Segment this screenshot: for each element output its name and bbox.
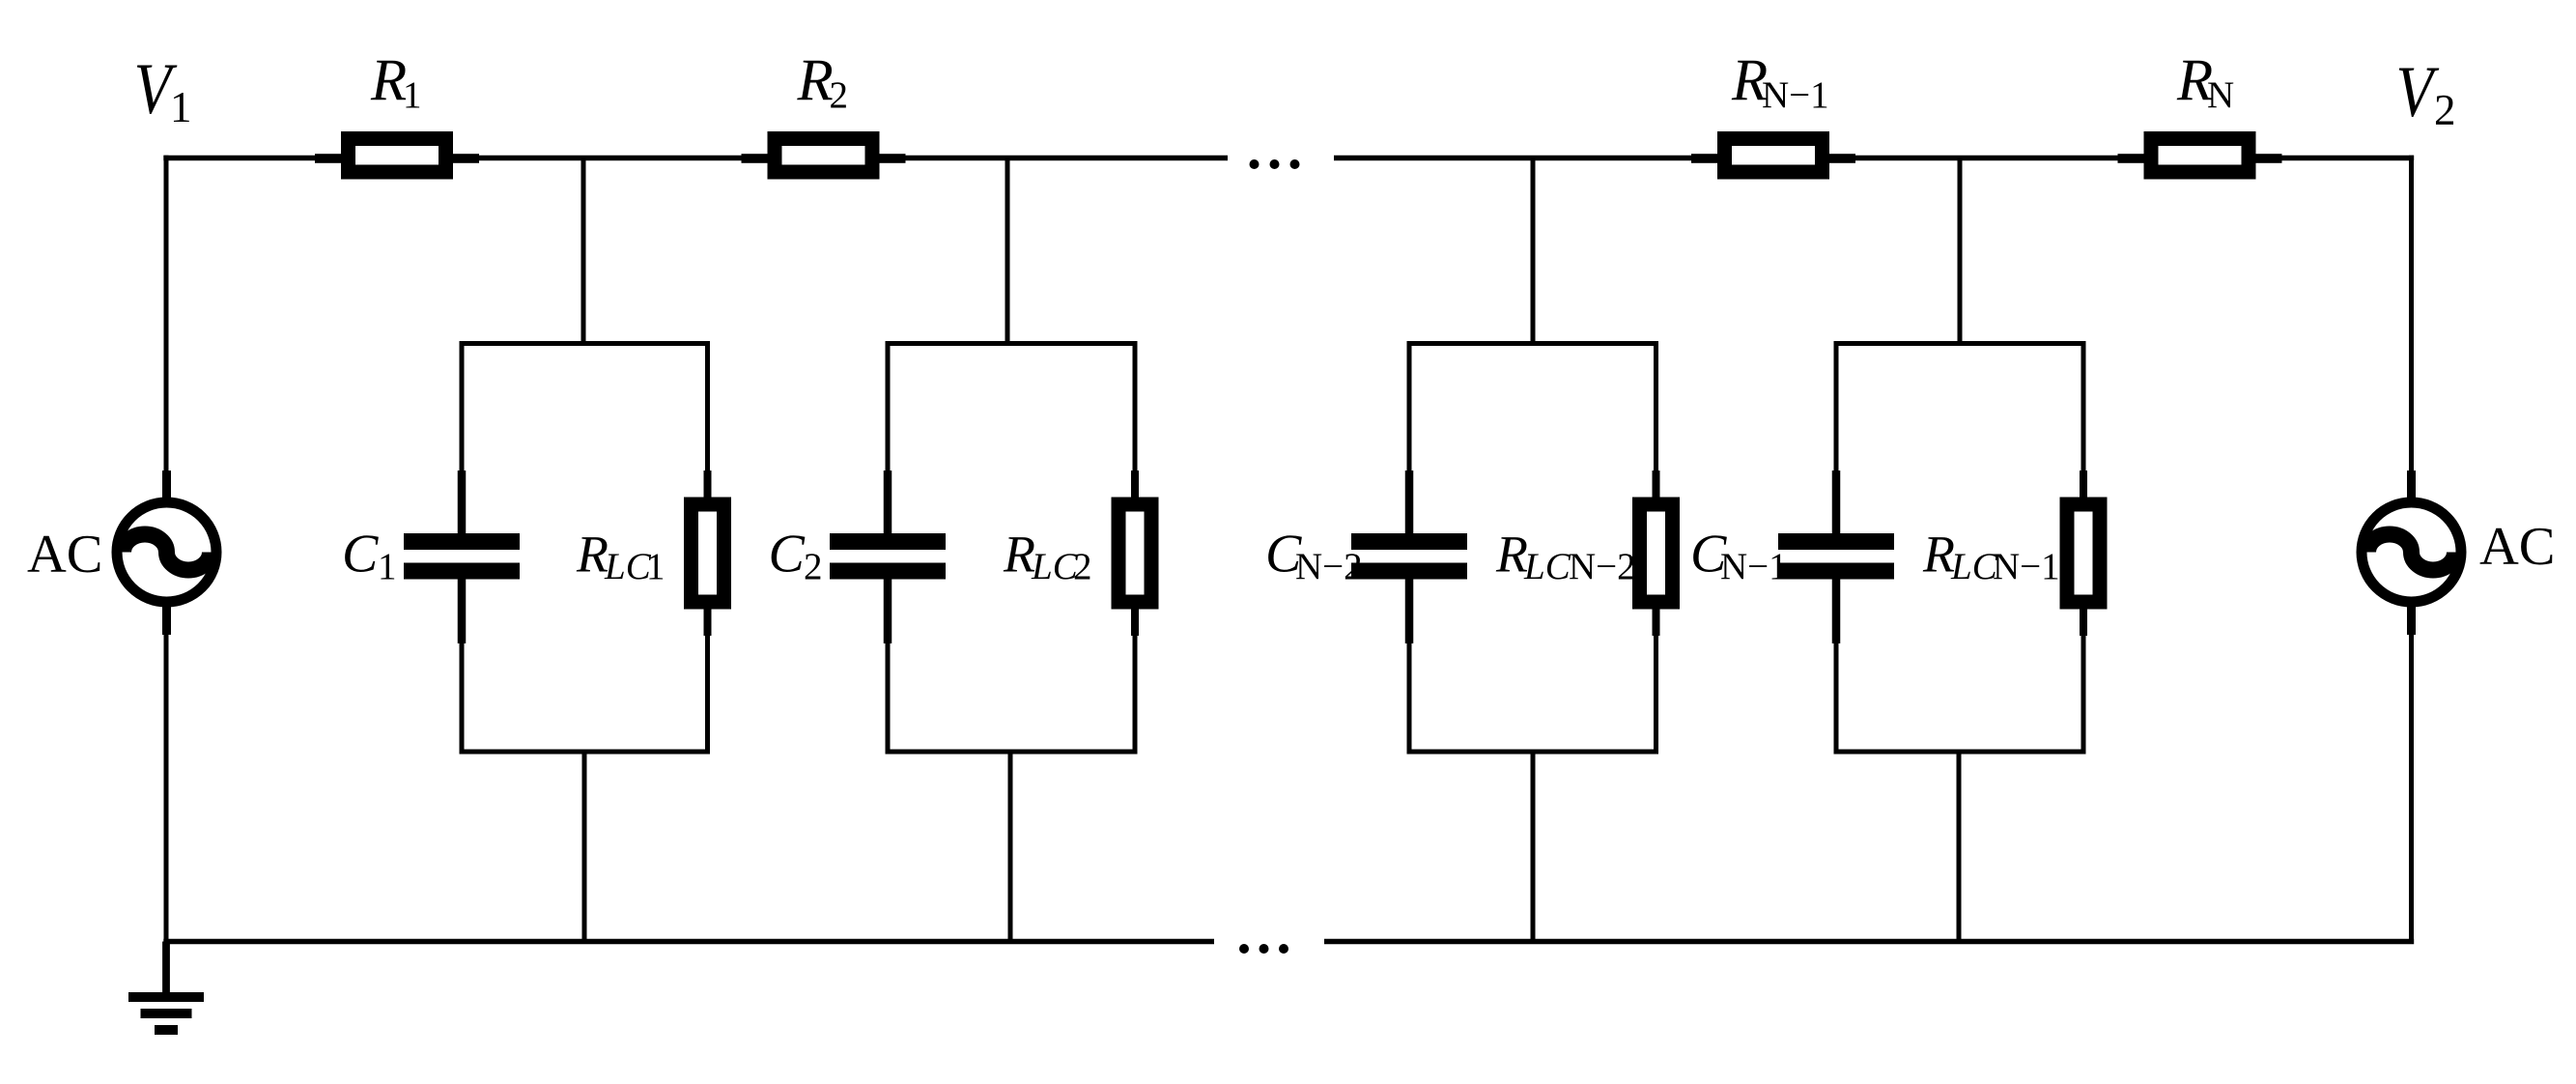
svg-text:N−1: N−1	[1720, 546, 1788, 587]
svg-text:N−2: N−2	[1295, 546, 1363, 587]
svg-text:N−1: N−1	[1993, 546, 2060, 587]
svg-text:C: C	[342, 525, 379, 585]
svg-text:1: 1	[646, 546, 665, 587]
svg-text:1: 1	[378, 546, 397, 587]
svg-text:N−1: N−1	[1762, 74, 1829, 116]
svg-text:R: R	[1003, 526, 1035, 584]
svg-text:1: 1	[170, 83, 192, 131]
svg-text:R: R	[576, 526, 609, 584]
svg-text:N−2: N−2	[1569, 546, 1636, 587]
svg-text:2: 2	[2434, 86, 2456, 134]
svg-text:LC: LC	[1950, 546, 1998, 587]
svg-text:R: R	[1922, 526, 1955, 584]
svg-text:N: N	[2207, 74, 2234, 116]
svg-text:AC: AC	[2479, 517, 2556, 577]
svg-text:2: 2	[804, 546, 823, 587]
svg-text:LC: LC	[604, 546, 652, 587]
svg-text:R: R	[797, 48, 834, 113]
svg-text:LC: LC	[1031, 546, 1079, 587]
svg-text:R: R	[370, 48, 407, 113]
svg-text:R: R	[1495, 526, 1528, 584]
svg-text:2: 2	[1073, 546, 1092, 587]
svg-text:2: 2	[830, 74, 849, 116]
svg-text:1: 1	[403, 74, 422, 116]
svg-text:LC: LC	[1523, 546, 1571, 587]
svg-text:C: C	[769, 525, 806, 585]
svg-text:AC: AC	[27, 525, 103, 585]
